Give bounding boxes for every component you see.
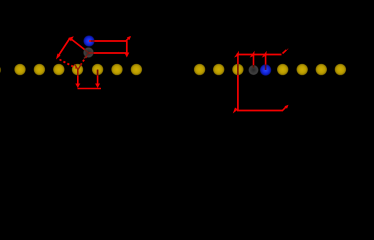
wire: blue node right horizontal	[89, 40, 127, 42]
wire: horizontal under-row segment	[78, 88, 102, 90]
wire: grey node to node L4 diagonal	[80, 56, 87, 66]
wire: bracket vertical to node R3	[237, 55, 239, 65]
arrowhead at bottom corner pointing down-left	[233, 108, 238, 114]
node R9	[335, 64, 347, 76]
wire: right bracket horizontal	[237, 54, 282, 56]
wire: apex to grey node	[71, 39, 85, 50]
arrowhead up at junction RG	[250, 51, 255, 58]
wire: left diamond rising segment with arrowhead	[58, 38, 71, 57]
node L3	[53, 64, 65, 76]
arrowhead at bottom-left of diamond	[56, 54, 61, 60]
wire: bottom horizontal	[237, 110, 283, 112]
arrowhead at diamond apex	[68, 36, 74, 41]
dark overlay marks on node L4 (Y shape)	[75, 64, 82, 76]
node R8	[316, 64, 328, 76]
dark overlay on grey node RG	[253, 65, 255, 68]
node R7	[296, 64, 308, 76]
arrowhead up at junction R3	[234, 51, 239, 58]
node L6	[111, 64, 123, 76]
wire: vertical below node L4 with down arrowhead	[77, 70, 79, 85]
wire: right vertical of loop	[126, 41, 128, 53]
node L4	[72, 64, 84, 76]
arrowhead up at junction RB	[262, 51, 267, 58]
node L2	[34, 64, 46, 76]
arrowhead tick top right pointing up-right	[126, 37, 131, 42]
node R2	[213, 64, 225, 76]
dark overlay on blue node LB	[91, 40, 95, 42]
grey node LG	[83, 47, 94, 58]
wire: bracket vertical to grey node RG	[253, 55, 255, 66]
node L7	[131, 64, 143, 76]
node R1	[194, 64, 206, 76]
node L1	[14, 64, 26, 76]
wire: long vertical below node R3	[237, 75, 239, 110]
wire: bracket vertical to blue node RB	[265, 55, 267, 65]
node R3	[232, 64, 244, 76]
node R6	[277, 64, 289, 76]
wire: vertical below node L5 with down arrowhead	[97, 70, 99, 85]
wire: bottom end diagonal with arrowhead	[283, 106, 287, 110]
dark overlay through node R3	[237, 64, 239, 75]
blue node RB	[260, 64, 271, 75]
blue node LB	[83, 35, 94, 46]
node L5	[92, 64, 104, 76]
wire: dotted diagonal to node L4	[60, 60, 77, 69]
arrowhead pointing down at loop bottom	[124, 53, 129, 58]
grey node RG	[248, 65, 258, 75]
node L0 (clipped at left edge)	[0, 65, 1, 74]
wire: grey node right horizontal	[89, 52, 127, 54]
wire: bracket end diagonal tick	[283, 50, 287, 54]
dark overlay on grey node LG	[84, 50, 94, 59]
dark overlay on blue node RB	[265, 65, 267, 71]
dark overlay stem on node L5	[97, 70, 99, 76]
